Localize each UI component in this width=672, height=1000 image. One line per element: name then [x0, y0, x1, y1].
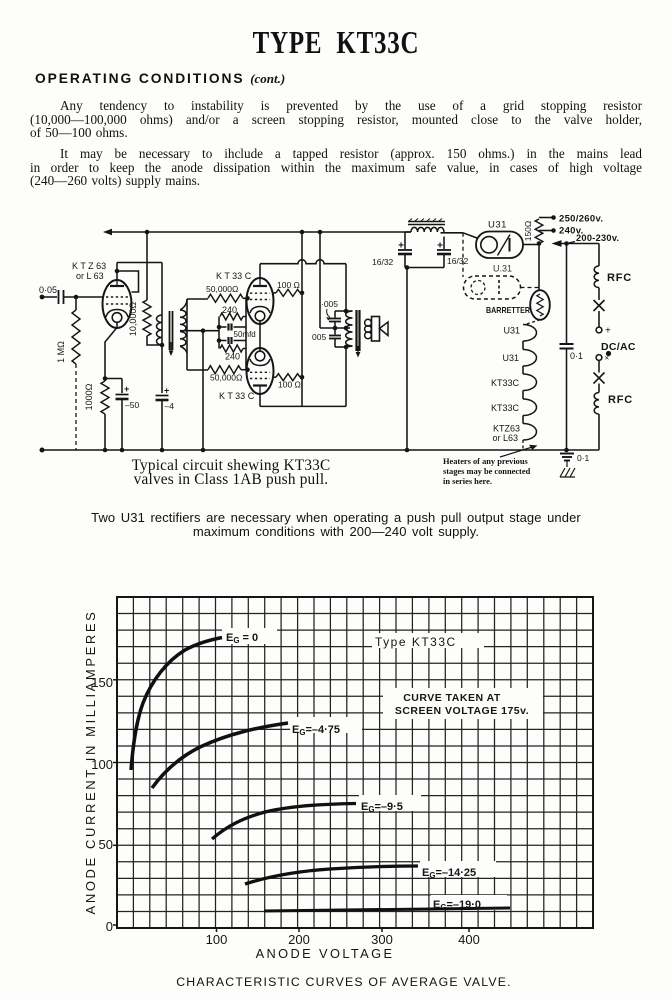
svg-text:K T 33 C: K T 33 C	[219, 391, 255, 401]
node cap bracket top	[344, 309, 349, 314]
svg-text:U31: U31	[488, 220, 507, 231]
x axis ticks	[216, 928, 218, 932]
heater KTZ63	[523, 424, 537, 441]
wire 1000ohm to rail	[104, 414, 106, 450]
valve V3 anode stub	[259, 386, 261, 394]
wire cap bus to ground rail	[406, 268, 408, 451]
wire dashed rectifier feed	[462, 233, 464, 277]
heater U31 no.1	[523, 325, 537, 342]
svg-text:U31: U31	[503, 326, 520, 336]
valve V3 KT33C envelope	[247, 348, 274, 394]
tap 250/260v	[539, 217, 554, 219]
loudspeaker	[372, 317, 380, 342]
heater KT33C no.1	[523, 374, 537, 391]
svg-text:240: 240	[225, 352, 240, 362]
wire anode bottom riser	[345, 347, 347, 406]
wire U31 output	[523, 244, 539, 246]
wire bracket bottom	[335, 346, 346, 348]
transformer T1 secondary	[180, 310, 186, 346]
svg-text:KTZ63: KTZ63	[493, 424, 520, 434]
svg-text:300: 300	[371, 932, 393, 947]
wire to mains chain	[567, 243, 600, 245]
wire centre tap to rail	[202, 331, 204, 450]
svg-text:RFC: RFC	[607, 272, 632, 284]
svg-text:100 Ω: 100 Ω	[277, 280, 300, 290]
node centre tap T2	[344, 326, 349, 331]
svg-text:RFC: RFC	[608, 394, 633, 406]
wire cathode link V2-V3	[259, 321, 261, 351]
svg-text:400: 400	[458, 932, 480, 947]
transformer T2 core	[355, 310, 357, 351]
valve V1 anode bar	[110, 285, 124, 287]
wire grid return bracket	[186, 299, 188, 370]
capacitor C1 0.05	[58, 290, 60, 304]
valve V2 anode stub	[259, 279, 261, 287]
svg-text:0·1: 0·1	[570, 351, 583, 361]
svg-text:DC/AC: DC/AC	[601, 341, 636, 353]
svg-text:KT33C: KT33C	[491, 403, 520, 413]
svg-text:EG=–4·75: EG=–4·75	[292, 724, 340, 737]
fuse X lower	[594, 373, 605, 384]
valve V2 grid dashes	[250, 292, 270, 294]
valve V1 anode stub	[116, 281, 118, 287]
curve EG=-9.5	[359, 795, 421, 811]
curve EG=-19.0	[431, 895, 507, 910]
transformer T1 primary	[157, 315, 163, 345]
wire chain bottom	[598, 414, 600, 450]
capacitor 50mfd lower	[219, 340, 227, 342]
transformer T2 primary	[346, 311, 353, 346]
svg-text:×: ×	[605, 354, 610, 363]
rectifier U31 optional dashed envelope	[464, 276, 521, 299]
valve V1 cathode pin	[105, 322, 117, 381]
wire cap bus	[405, 267, 444, 269]
svg-text:50,000Ω: 50,000Ω	[206, 284, 238, 294]
svg-text:–4: –4	[165, 401, 175, 411]
wire C2 to rail	[121, 399, 123, 450]
rectifier U31 filament diagonal	[498, 235, 511, 256]
wire chain	[598, 384, 600, 393]
terminal circle x	[596, 355, 602, 361]
valve V3 grid dashes	[250, 378, 270, 380]
rail node	[405, 448, 410, 453]
choke core	[408, 221, 445, 223]
wire anode top riser	[345, 264, 347, 311]
wire U31 junction down	[538, 244, 540, 291]
wire C1 to V1 grid	[64, 296, 104, 298]
heater link2	[522, 366, 524, 374]
valve V2 heater circle	[255, 311, 265, 321]
svg-text:50: 50	[99, 837, 113, 852]
wire HT branch vertical	[161, 263, 163, 394]
node cap bracket mid	[333, 326, 338, 331]
rectifier U31 envelope	[476, 232, 523, 259]
wire bias left rail	[218, 317, 220, 349]
capacitor 0.1 smoothing	[560, 343, 574, 345]
svg-text:+: +	[124, 384, 129, 394]
wire T1 sec top	[180, 299, 187, 310]
ground rail	[42, 449, 599, 451]
wire bias right rail	[245, 317, 247, 349]
wire 1M to ground rail (dashed)	[75, 364, 77, 450]
wire T1 centre tap	[180, 330, 219, 332]
barretter envelope	[530, 290, 550, 320]
wire bracket top	[335, 310, 346, 312]
heater U31 no.2	[523, 350, 537, 367]
wire rail to node A	[146, 232, 148, 300]
capacitor 0.1 to chassis	[560, 453, 574, 455]
rail arrow to previous stage	[103, 229, 112, 235]
rail node	[160, 448, 165, 453]
curve EG=0	[222, 628, 277, 644]
rail end node	[40, 448, 45, 453]
svg-text:U31: U31	[502, 353, 519, 363]
wire V3 anode	[259, 394, 261, 407]
heater link1	[522, 341, 524, 350]
chart frame	[117, 597, 593, 928]
wire 0.1 branch	[566, 244, 568, 344]
valve V1 cathode arc	[106, 310, 128, 318]
valve V3 cathode arc	[250, 359, 270, 366]
node T1 primary bottom	[160, 343, 165, 348]
chart title	[372, 633, 484, 648]
valve V2 anode bar	[253, 285, 267, 287]
wire 10k bottom	[147, 336, 162, 345]
node lower grid	[245, 367, 250, 372]
wire chain top	[598, 244, 600, 267]
node centre tap	[201, 328, 206, 333]
wire dashed rectifier output	[521, 287, 540, 289]
node cap bus	[405, 265, 410, 270]
wire rail to choke	[405, 231, 411, 233]
svg-text:150Ω: 150Ω	[523, 221, 533, 242]
input terminal	[40, 295, 45, 300]
svg-text:–50: –50	[125, 400, 139, 410]
svg-text:·005: ·005	[321, 299, 338, 309]
svg-text:or L63: or L63	[492, 433, 518, 443]
resistor 50000 ohm upper grid stopper	[208, 294, 243, 302]
svg-text:K T 33 C: K T 33 C	[216, 271, 252, 281]
choke RFC upper	[594, 266, 599, 288]
node screen bus top	[300, 291, 305, 296]
wire V1 top-cap	[116, 263, 118, 281]
resistor 10000 ohm anode load	[143, 300, 151, 336]
wire screen bus	[301, 232, 303, 406]
svg-text:0·05: 0·05	[39, 285, 57, 295]
svg-text:Type KT33C: Type KT33C	[375, 635, 457, 649]
rail node	[103, 448, 108, 453]
fuse X upper	[594, 300, 605, 311]
node top-cap	[115, 269, 120, 274]
node dropper bottom	[537, 241, 542, 246]
wire chain	[598, 360, 600, 372]
capacitor .005 lower	[334, 328, 336, 335]
wire barretter to heaters dashed	[525, 320, 540, 325]
resistor 150 ohm mains dropper	[535, 219, 543, 244]
capacitor 16/32 right	[443, 237, 445, 250]
node HT CT riser rail	[318, 230, 323, 235]
barretter element	[537, 294, 543, 316]
svg-text:BARRETTER: BARRETTER	[486, 305, 530, 315]
wire 240 lower to grid	[243, 349, 246, 370]
resistor 240 ohm upper	[220, 313, 243, 320]
svg-text:SCREEN VOLTAGE 175v.: SCREEN VOLTAGE 175v.	[395, 705, 529, 717]
svg-text:10,000Ω: 10,000Ω	[128, 302, 138, 337]
capacitor 16/32 left	[404, 232, 406, 249]
svg-text:100: 100	[206, 932, 228, 947]
capacitor C4 bias 4mfd	[156, 395, 169, 397]
svg-text:005: 005	[312, 332, 326, 342]
heater link3	[522, 391, 524, 400]
svg-text:or L 63: or L 63	[76, 271, 104, 281]
svg-text:ANODE VOLTAGE: ANODE VOLTAGE	[256, 946, 395, 961]
curve EG=-4.75	[290, 717, 362, 733]
valve V2 cathode arc	[250, 307, 270, 314]
svg-text:50,000Ω: 50,000Ω	[210, 373, 242, 383]
svg-text:K T Z 63: K T Z 63	[72, 261, 106, 271]
tap 200-230v switch arrow	[552, 240, 562, 247]
node upper grid	[245, 296, 250, 301]
svg-text:EG=–19·0: EG=–19·0	[433, 899, 481, 912]
svg-text:EG=–9·5: EG=–9·5	[361, 801, 403, 814]
wire 240 upper to grid	[243, 298, 246, 316]
node cap bracket bottom	[344, 345, 349, 350]
transformer T2 secondary	[365, 319, 372, 326]
wire T1 sec bottom	[180, 346, 187, 353]
rectifier U31 optional circle	[471, 281, 485, 295]
svg-text:250/260v.: 250/260v.	[559, 214, 603, 225]
curve EG=-14.25	[420, 861, 496, 877]
wire cathode to C2	[105, 378, 122, 380]
svg-text:100 Ω: 100 Ω	[278, 380, 301, 390]
transformer T1 core	[169, 311, 171, 350]
node bias left top	[217, 325, 222, 330]
wire choke to U31	[441, 232, 464, 234]
HT+ rail	[105, 231, 411, 233]
rail node	[564, 448, 569, 453]
capacitor 50mfd upper	[219, 326, 227, 328]
rectifier U31 anode bar	[509, 238, 511, 252]
svg-text:ANODE CURRENT IN MILLIAMPERES: ANODE CURRENT IN MILLIAMPERES	[83, 610, 98, 915]
rail node	[201, 448, 206, 453]
svg-text:KT33C: KT33C	[491, 378, 520, 388]
wire C4 to ground rail	[161, 400, 163, 450]
svg-text:+: +	[605, 326, 611, 337]
node rail 10k	[145, 230, 150, 235]
svg-text:0·1: 0·1	[577, 453, 590, 463]
rectifier U31 optional anode	[498, 280, 500, 295]
y axis ticks	[113, 679, 117, 681]
wire heater chain to rail dashed	[522, 440, 524, 450]
choke L1	[411, 227, 444, 232]
resistor 1000 ohm cathode	[101, 381, 109, 414]
node cathode	[103, 376, 108, 381]
valve V2 KT33C envelope	[247, 278, 274, 324]
valve V3 heater circle	[255, 351, 265, 361]
wire 0.1 to rail	[566, 349, 568, 451]
resistor 100 ohm lower screen stop	[274, 376, 277, 378]
svg-text:50mfd: 50mfd	[234, 330, 256, 339]
chassis ground symbol	[566, 461, 568, 468]
transformer T1 core arrow	[170, 342, 172, 352]
wire chain	[598, 311, 600, 327]
capacitor .005 upper	[334, 311, 336, 318]
svg-text:EG = 0: EG = 0	[226, 632, 258, 645]
choke RFC lower	[594, 393, 599, 415]
svg-text:240: 240	[222, 305, 237, 315]
resistor 100 ohm upper screen stop	[274, 292, 277, 294]
wire input to C1	[44, 296, 57, 298]
valve V1 heater circle	[112, 313, 122, 323]
svg-text:200: 200	[288, 932, 310, 947]
svg-text:16/32: 16/32	[447, 256, 469, 266]
chart note	[383, 688, 543, 719]
svg-text:CURVE TAKEN AT: CURVE TAKEN AT	[403, 692, 501, 704]
heater link4	[522, 416, 524, 424]
rectifier U31 cathode circle	[481, 237, 497, 253]
node screen bus bottom	[300, 375, 305, 380]
resistor 240 ohm lower	[220, 345, 243, 352]
rail node	[120, 448, 125, 453]
wire top-cap hook	[117, 271, 139, 292]
wire HT to centre tap	[319, 232, 321, 328]
valve V3 anode bar	[253, 384, 267, 386]
heaters note arrow	[500, 447, 534, 458]
terminal circle +	[596, 327, 602, 333]
node grid V1	[74, 295, 79, 300]
valve V1 KTZ63 envelope	[103, 280, 132, 328]
svg-text:200-230v.: 200-230v.	[576, 233, 619, 243]
tap 240v	[539, 230, 554, 232]
svg-text:1000Ω: 1000Ω	[84, 383, 94, 410]
svg-text:16/32: 16/32	[372, 257, 394, 267]
resistor 50000 ohm lower grid stopper	[208, 366, 241, 374]
wire chain	[598, 288, 600, 300]
node bias left bottom	[217, 338, 222, 343]
svg-text:1 MΩ: 1 MΩ	[56, 341, 66, 363]
heater KT33C no.2	[523, 399, 537, 416]
transformer T2 core arrow	[357, 346, 359, 353]
valve V1 grid dashes	[106, 296, 128, 298]
svg-text:+: +	[164, 386, 169, 396]
capacitor C2 50mfd cathode	[116, 394, 129, 396]
resistor 1M grid leak	[75, 299, 77, 310]
svg-text:0: 0	[106, 919, 113, 934]
chart gridlines	[132, 597, 134, 928]
node screen bus rail	[300, 230, 305, 235]
wire V2 anode	[259, 264, 261, 279]
svg-text:U.31: U.31	[493, 264, 512, 274]
